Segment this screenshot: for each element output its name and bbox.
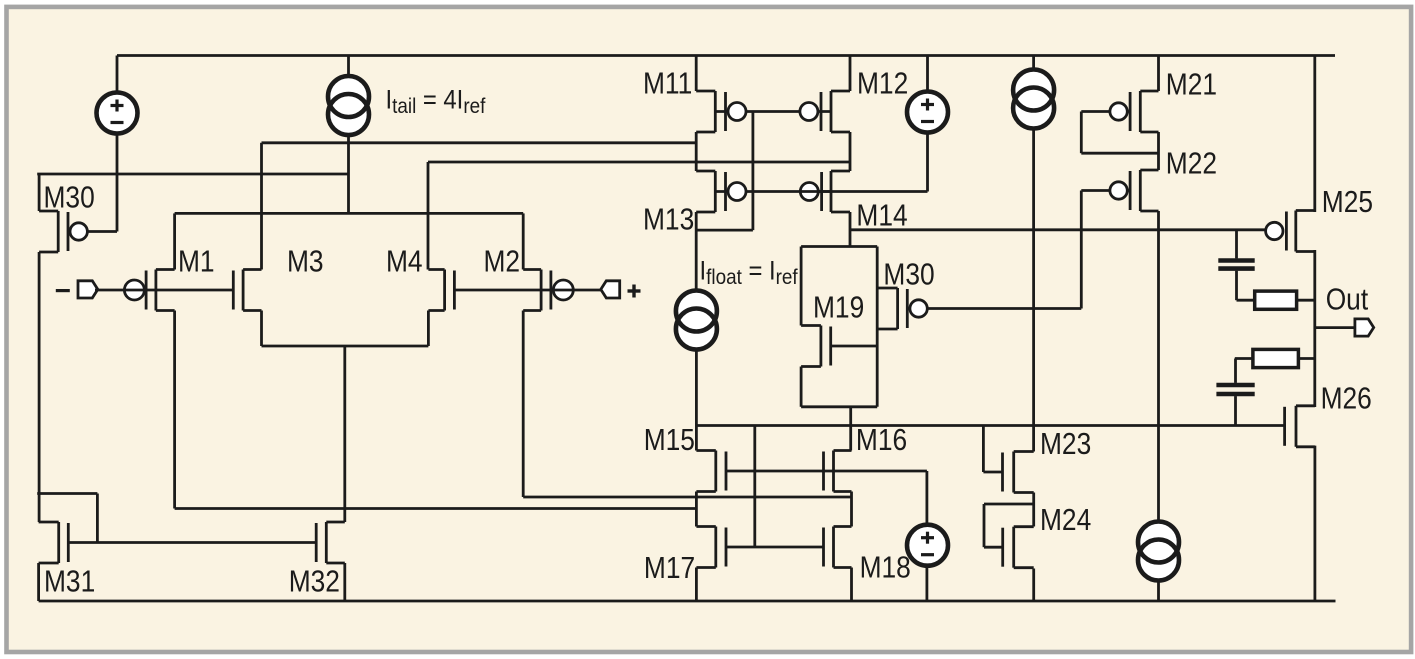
- wire M18 source to VSS: [850, 568, 853, 602]
- wire M16-M18 node: [850, 492, 853, 527]
- wire class-AB box top: [801, 245, 877, 248]
- svg-text:M30: M30: [883, 258, 934, 292]
- transistor M31: [39, 522, 69, 563]
- svg-text:M3: M3: [287, 245, 324, 279]
- svg-text:M30: M30: [44, 181, 95, 215]
- svg-text:M12: M12: [857, 67, 908, 101]
- svg-text:M11: M11: [643, 67, 692, 101]
- wire VS2 to top rail: [926, 56, 929, 92]
- svg-text:M19: M19: [813, 291, 864, 325]
- voltage source V2: [907, 92, 948, 133]
- wire Itail bottom to source bar: [347, 135, 350, 213]
- wire M23 gate lead: [983, 471, 1002, 474]
- transistor M17: [696, 527, 726, 568]
- wire M4 drain to M14 node: [428, 161, 850, 164]
- wire M14 gate line overlay: [799, 190, 831, 193]
- wire R2 to output node: [1298, 357, 1314, 360]
- wire M24 source to VSS: [1032, 569, 1035, 602]
- resistor R2: [1253, 349, 1299, 367]
- transistor M12: [800, 91, 850, 132]
- wire M22 gate lead: [1081, 189, 1130, 192]
- label plus sign: [628, 285, 641, 298]
- wire VS3 bottom to VSS: [926, 566, 929, 601]
- capacitor C2 top lead: [1234, 359, 1237, 383]
- svg-text:M23: M23: [1040, 427, 1091, 461]
- svg-text:M17: M17: [644, 551, 695, 585]
- wire M32 drain up (tail): [343, 346, 346, 522]
- wire M2 source up: [522, 213, 525, 269]
- wire gate tie vertical: [752, 112, 755, 231]
- transistor M32: [316, 522, 345, 563]
- transistor M22: [1110, 170, 1159, 211]
- wire M4 drain up: [427, 162, 430, 270]
- wire M3 source down: [260, 311, 263, 347]
- transistor M11: [696, 91, 746, 132]
- wire M23 diode vertical: [982, 426, 985, 473]
- wire M25 drain to M26 drain: [1313, 250, 1316, 407]
- wire M31 source to VSS: [37, 563, 40, 601]
- wire VS1 bottom to M30 gate node: [116, 134, 119, 232]
- wire C1 to R1: [1237, 299, 1255, 302]
- node minus input terminal: [78, 281, 98, 298]
- wire M1 source up: [173, 213, 176, 269]
- wire M11-M13 node: [695, 132, 698, 171]
- wire M22 drain down to CS4: [1157, 211, 1160, 522]
- wire inverting input line: [95, 289, 233, 292]
- wire box left lower: [800, 367, 803, 407]
- wire M17 source to VSS: [695, 568, 698, 602]
- transistor M25: [1266, 211, 1315, 252]
- voltage source V3: [907, 525, 948, 566]
- wire VSS bottom rail: [39, 600, 1336, 603]
- transistor M4: [428, 270, 454, 311]
- wire M3 drain up: [260, 143, 263, 270]
- svg-text:M18: M18: [860, 551, 911, 585]
- voltage source V1: [97, 93, 138, 134]
- wire box tap to M16 drain: [849, 407, 852, 451]
- transistor M15: [696, 451, 726, 492]
- svg-text:M14: M14: [856, 199, 907, 233]
- wire M3 drain to M13 node: [262, 141, 697, 144]
- resistor R1: [1255, 291, 1297, 309]
- transistor M30 (right): [877, 288, 927, 329]
- wire CS4 to VSS: [1157, 581, 1160, 602]
- current source I2: [1013, 70, 1054, 129]
- wire M21-M22 node: [1157, 132, 1160, 170]
- wire M15-M16 gate line: [726, 470, 927, 473]
- wire bias rail y174: [37, 173, 348, 176]
- wire PMOS source bar: [175, 212, 524, 215]
- svg-text:M25: M25: [1322, 185, 1373, 219]
- transistor M16: [824, 451, 852, 492]
- wire noninverting input line: [454, 289, 600, 292]
- transistor M19: [801, 326, 831, 367]
- wire M13 drain down: [695, 212, 698, 291]
- capacitor C1 top lead: [1235, 230, 1238, 259]
- wire M17-M18 gate line: [726, 546, 824, 549]
- wire Itail to top rail: [347, 56, 350, 77]
- wire M11 source to rail: [695, 56, 698, 92]
- node Out terminal: [1355, 319, 1374, 336]
- node plus input terminal: [601, 281, 620, 298]
- transistor M24: [1003, 527, 1034, 568]
- wire M17 gate bias vertical: [753, 426, 756, 548]
- transistor M3: [233, 270, 261, 311]
- wire M12-M14 node: [849, 132, 852, 171]
- transistor M30 (left): [39, 211, 87, 252]
- transistor M2: [523, 270, 551, 311]
- wire VS2 bottom: [926, 133, 929, 192]
- wire M4 source down: [427, 311, 430, 347]
- wire output lead: [1315, 326, 1355, 329]
- capacitor C1 bottom lead: [1235, 271, 1238, 301]
- svg-text:M31: M31: [44, 565, 95, 599]
- wire VDD top rail: [117, 54, 1335, 57]
- svg-text:M16: M16: [856, 423, 907, 457]
- wire VS1 to top rail: [116, 56, 119, 93]
- capacitor C1: [1218, 261, 1254, 269]
- svg-text:M1: M1: [178, 245, 215, 279]
- svg-text:M22: M22: [1166, 146, 1217, 180]
- wire M31 diode top: [37, 492, 97, 495]
- svg-text:M26: M26: [1321, 381, 1372, 415]
- wire M12 source to rail: [849, 56, 852, 92]
- wire M1 drain to M17 node: [175, 507, 697, 510]
- wire M11-M12 gate line: [715, 110, 831, 113]
- wire box left upper: [800, 247, 803, 326]
- wire M21 gate lead: [1081, 110, 1130, 113]
- wire M2 drain to M18 node: [523, 496, 851, 499]
- wire M13 drain tap: [696, 229, 753, 232]
- wire M24 gate lead: [984, 546, 1003, 549]
- wire M32 source to VSS: [343, 563, 346, 601]
- wire M26 source to VSS: [1314, 446, 1317, 601]
- wire M2 drain down: [522, 311, 525, 498]
- svg-text:M2: M2: [484, 245, 521, 279]
- transistor M23: [1003, 452, 1034, 493]
- node input bubble M1: [124, 280, 144, 300]
- wire box bottom: [801, 405, 877, 408]
- wire M31 diode vertical: [96, 494, 99, 543]
- wire box right: [876, 247, 879, 407]
- wire M30 source down to M31: [38, 252, 41, 522]
- wire NMOS tail bar: [262, 345, 429, 348]
- wire M24 diode vertical: [983, 504, 986, 547]
- wire M25 source to rail: [1313, 56, 1316, 213]
- wire M31-M32 gate line: [68, 541, 316, 544]
- transistor M13: [696, 171, 746, 212]
- wire cascode output to M26 gate: [696, 424, 1284, 427]
- wire R1 to output node: [1297, 299, 1315, 302]
- label minus sign: [56, 289, 70, 292]
- current source Itail: [328, 76, 369, 135]
- wire M19 gate lead: [831, 345, 878, 348]
- wire M30 gate lead: [68, 230, 117, 233]
- wire M21 gate vertical: [1080, 112, 1083, 154]
- wire M14 drain down: [849, 212, 852, 247]
- wire M24 diode top: [984, 503, 1034, 506]
- svg-text:M24: M24: [1040, 503, 1091, 537]
- wire M30 drain up: [38, 174, 41, 211]
- svg-text:M13: M13: [643, 203, 694, 237]
- current source I3: [1138, 522, 1179, 581]
- svg-text:M21: M21: [1166, 67, 1217, 101]
- wire R2 left lead: [1235, 357, 1253, 360]
- wire M15-M17 node: [695, 492, 698, 527]
- svg-text:M32: M32: [289, 565, 340, 599]
- wire CS3 bottom to M23 drain: [1032, 129, 1035, 452]
- wire M1 drain down: [173, 311, 176, 509]
- current source Ifloat: [676, 291, 717, 350]
- wire M23-M24 node: [1032, 493, 1035, 527]
- capacitor C2 bottom lead: [1234, 396, 1237, 425]
- capacitor C2: [1216, 385, 1254, 394]
- transistor M14: [800, 171, 850, 212]
- transistor M18: [824, 527, 852, 568]
- svg-text:Out: Out: [1326, 282, 1368, 316]
- svg-text:M4: M4: [386, 245, 423, 279]
- wire M30 gate lead to M22 gate: [907, 307, 1081, 310]
- svg-text:M15: M15: [644, 423, 695, 457]
- wire M22 gate vertical: [1080, 191, 1083, 309]
- wire VS3 vertical: [926, 471, 929, 525]
- transistor M1: [146, 270, 175, 311]
- transistor M21: [1110, 91, 1159, 132]
- node input bubble M2: [553, 280, 573, 300]
- wire CS3 to top rail: [1032, 56, 1035, 70]
- wire M13-M14 gate line: [715, 190, 927, 193]
- wire M14 drain to M25 gate: [850, 228, 1266, 231]
- transistor M26: [1285, 406, 1315, 447]
- wire M21 source to rail: [1157, 56, 1160, 92]
- wire Ifloat bottom: [695, 350, 698, 451]
- wire M21 gate to drain: [1081, 152, 1158, 155]
